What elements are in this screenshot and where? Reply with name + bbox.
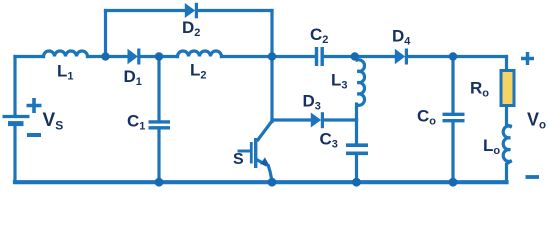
inductor L2 xyxy=(178,51,222,56)
wire switch collector vertical xyxy=(270,57,273,122)
wire C1 top xyxy=(157,57,160,121)
node C (L2-D2-C2-switch) xyxy=(268,52,276,60)
wire C2 to D4 xyxy=(324,55,395,58)
wire C1 bottom xyxy=(157,129,160,182)
wire D4 to output corner xyxy=(408,55,507,58)
node B (D1-L2-C1) xyxy=(155,52,163,60)
output minus sign xyxy=(526,175,540,179)
wire C3 top xyxy=(355,120,358,144)
node F (C1-bottom rail) xyxy=(155,178,164,187)
inductor Lo xyxy=(503,126,510,162)
node H (C3-bottom rail) xyxy=(352,178,361,187)
node G (switch-bottom rail) xyxy=(268,178,277,187)
wire L3 to D3 junction xyxy=(355,104,358,120)
transistor S emitter arrow xyxy=(260,157,269,165)
wire top rail left segment xyxy=(15,55,44,58)
diode D1 xyxy=(128,49,141,65)
capacitor C3 xyxy=(346,145,368,153)
node A (L1-D1-D2) xyxy=(101,52,109,60)
wire L1 to D1 xyxy=(88,55,129,58)
capacitor Co xyxy=(443,114,465,120)
wire D2 branch top left xyxy=(106,9,186,12)
wire D3 branch left xyxy=(272,118,311,121)
wire source top xyxy=(13,57,16,116)
output plus sign xyxy=(521,52,534,65)
wire output right vertical top xyxy=(505,57,508,71)
diode D4 xyxy=(395,49,408,65)
diode D2 xyxy=(185,3,198,18)
wire Co bottom xyxy=(451,122,454,182)
wire D2 branch right vertical xyxy=(270,11,273,57)
node D (C2-L3-D4) xyxy=(351,52,359,60)
capacitor C1 xyxy=(149,122,171,128)
resistor Ro xyxy=(501,71,514,106)
inductor L1 xyxy=(44,51,88,56)
wire C3 bottom xyxy=(355,155,358,182)
svg-text:S: S xyxy=(233,151,244,168)
capacitor C2 xyxy=(317,47,323,66)
wire Ro to Lo xyxy=(507,107,511,127)
diode D3 xyxy=(311,112,324,128)
wire Lo to bottom rail xyxy=(507,161,511,182)
wire D2 branch top right xyxy=(198,9,273,12)
wire D1 to L2 xyxy=(140,55,178,58)
wire source bottom xyxy=(13,126,16,182)
battery source Vs xyxy=(3,98,42,135)
wire bottom rail xyxy=(15,180,507,184)
wire Co top xyxy=(451,57,454,113)
wire D3 branch right xyxy=(324,118,357,121)
wire L2 to C2 xyxy=(222,55,315,58)
transistor S (IGBT switch) xyxy=(238,121,273,180)
wire D2 branch left vertical xyxy=(104,11,107,57)
node I (Co-bottom rail) xyxy=(449,178,458,187)
node E (D4-Co-output) xyxy=(449,52,457,60)
inductor L3 xyxy=(355,57,365,105)
